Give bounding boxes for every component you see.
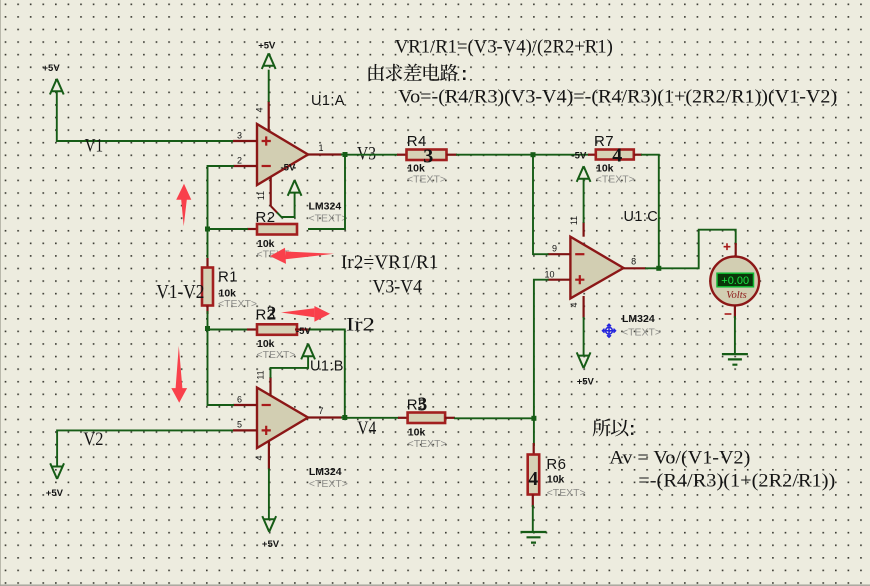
op-amp U1:A pin 11 stub bbox=[270, 177, 272, 206]
svg-text:4: 4 bbox=[254, 455, 264, 460]
power -5V arrow at U1:B pin 11 bbox=[271, 357, 309, 377]
svg-text:+5V: +5V bbox=[46, 488, 64, 499]
Chinese annotation 由求差电路: bbox=[368, 64, 383, 81]
svg-text:R7: R7 bbox=[594, 133, 614, 150]
resistor R1 (vertical) bbox=[207, 229, 209, 262]
wire from U1:A output to V3 node and down to R2 right bbox=[342, 154, 345, 156]
svg-text:U1:C: U1:C bbox=[624, 209, 659, 225]
svg-text:3: 3 bbox=[237, 131, 242, 141]
svg-text:10: 10 bbox=[544, 270, 554, 280]
svg-text:<TEXT>: <TEXT> bbox=[218, 298, 257, 310]
power +5V symbol (V1 source) bbox=[50, 79, 64, 95]
wire R3 right down to V4 node bbox=[309, 330, 345, 418]
svg-text:V1: V1 bbox=[85, 136, 104, 157]
power -5V arrow at U1:A pin 11 bbox=[278, 194, 295, 218]
svg-text:3: 3 bbox=[423, 145, 433, 167]
svg-text:V4: V4 bbox=[357, 418, 376, 439]
svg-text:11: 11 bbox=[256, 370, 266, 379]
red right arrow annotation (pointing from R3) bbox=[314, 306, 330, 322]
svg-text:<TEXT>: <TEXT> bbox=[596, 174, 635, 186]
svg-text:V1-V2: V1-V2 bbox=[156, 282, 204, 303]
svg-text:=-(R4/R3)(1+(2R2/R1)): =-(R4/R3)(1+(2R2/R1)) bbox=[638, 472, 835, 492]
resistor R7 bbox=[588, 154, 596, 156]
wire V3 node to R4 bbox=[345, 154, 397, 156]
svg-text:V2: V2 bbox=[83, 429, 103, 450]
wire from U1:B pin 6 up to R1 bottom node bbox=[208, 329, 234, 406]
svg-text:R1: R1 bbox=[218, 269, 238, 286]
svg-text:4: 4 bbox=[528, 468, 538, 490]
voltmeter display +0.00 Volts bbox=[717, 273, 754, 287]
svg-text:LM324: LM324 bbox=[622, 313, 655, 325]
wire output node to voltmeter bbox=[659, 230, 736, 269]
svg-text:6: 6 bbox=[237, 395, 242, 405]
resistor R2 bbox=[247, 228, 257, 230]
svg-text:V3-V4: V3-V4 bbox=[373, 277, 423, 297]
voltmeter body bbox=[710, 257, 759, 306]
op-amp U1:B pin 4 power stub bbox=[268, 441, 270, 469]
op-amp U1:A pin 4 power stub bbox=[268, 101, 270, 131]
op-amp U1:B pin 11 stub bbox=[269, 377, 271, 396]
wire voltmeter to ground bbox=[734, 317, 736, 354]
red left arrow annotation (pointing at R2 TEXT) bbox=[270, 248, 286, 264]
op-amp U1:A pin 3 stub bbox=[233, 140, 257, 142]
svg-text:R2: R2 bbox=[256, 209, 276, 226]
resistor R5 bbox=[398, 417, 408, 419]
power +5V symbol at U1:A pin 4 bbox=[268, 71, 270, 101]
svg-text:4: 4 bbox=[569, 302, 579, 307]
svg-text:<TEXT>: <TEXT> bbox=[257, 349, 296, 361]
svg-text:U1:A: U1:A bbox=[311, 93, 345, 109]
resistor R3 bbox=[208, 329, 248, 330]
svg-text:4: 4 bbox=[254, 107, 264, 112]
op-amp U1:A body bbox=[257, 124, 308, 185]
op-amp U1:C pin 10 stub bbox=[548, 279, 571, 281]
svg-text:7: 7 bbox=[318, 406, 323, 416]
junction R5-R6 node bbox=[531, 416, 536, 421]
svg-text:+5V: +5V bbox=[262, 539, 280, 550]
svg-text:-5V: -5V bbox=[281, 163, 296, 174]
voltmeter top pin bbox=[735, 243, 737, 257]
svg-text:11: 11 bbox=[569, 216, 579, 225]
svg-text:9: 9 bbox=[552, 244, 557, 254]
svg-text:-5V: -5V bbox=[296, 326, 311, 337]
svg-text:<TEXT>: <TEXT> bbox=[547, 487, 586, 499]
svg-text:Ir2=VR1/R1: Ir2=VR1/R1 bbox=[341, 253, 439, 273]
svg-text:4: 4 bbox=[612, 145, 622, 167]
wire V1 net: +5V arrow down and right to U1:A pin 3 bbox=[57, 92, 233, 141]
wire R6 to ground bbox=[532, 506, 534, 532]
power -5V arrow at U1:C pin 11 bbox=[583, 180, 585, 222]
op-amp U1:B body bbox=[257, 388, 308, 448]
svg-text:LM324: LM324 bbox=[309, 201, 342, 213]
node V3 junction bbox=[343, 152, 348, 157]
output node junction bbox=[656, 266, 661, 271]
svg-text:<TEXT>: <TEXT> bbox=[309, 478, 348, 490]
svg-text:<TEXT>: <TEXT> bbox=[309, 213, 348, 225]
svg-text:U1:B: U1:B bbox=[310, 358, 344, 374]
op-amp U1:A pin 1 output stub bbox=[308, 153, 342, 155]
red up arrow annotation (left of R2) bbox=[176, 184, 191, 227]
svg-text:+0.00: +0.00 bbox=[721, 275, 749, 287]
svg-text:+5V: +5V bbox=[258, 40, 276, 51]
op-amp U1:C pin 4 power stub bbox=[582, 296, 584, 318]
wire R5 to R6 node bbox=[455, 417, 534, 419]
blue origin marker of U1:C bbox=[603, 324, 616, 337]
op-amp U1:C pin 11 power stub bbox=[582, 222, 584, 237]
svg-text:Volts: Volts bbox=[726, 290, 746, 301]
op-amp U1:B pin 7 output stub bbox=[308, 416, 342, 418]
svg-text:R6: R6 bbox=[546, 456, 566, 473]
op-amp U1:B pin 5 stub bbox=[233, 429, 257, 431]
junction R4-R7 node bbox=[531, 152, 536, 157]
node V4 junction bbox=[342, 415, 347, 420]
resistor R6 (vertical) bbox=[533, 418, 535, 445]
junction R1-R3 node bbox=[205, 326, 210, 331]
svg-text:1: 1 bbox=[318, 143, 323, 153]
voltmeter + terminal mark bbox=[724, 243, 731, 250]
svg-text:Ir2: Ir2 bbox=[346, 316, 375, 336]
svg-text:+5V: +5V bbox=[43, 63, 61, 74]
svg-text:10k: 10k bbox=[547, 473, 565, 485]
wire V4 node to R5 bbox=[345, 417, 398, 419]
svg-text:3: 3 bbox=[418, 394, 428, 415]
wire U1:B output to V4 node bbox=[342, 417, 345, 419]
op-amp U1:C pin 9 stub bbox=[548, 253, 571, 255]
Chinese annotation 所以: bbox=[593, 419, 611, 437]
op-amp U1:B pin 6 stub bbox=[233, 404, 257, 406]
svg-text:+5V: +5V bbox=[577, 376, 595, 387]
svg-text:-5V: -5V bbox=[572, 151, 587, 162]
wire U1:C output to node bbox=[646, 267, 659, 269]
svg-text:Vo=-(R4/R3)(V3-V4)=-(R4/R3)(1+: Vo=-(R4/R3)(V3-V4)=-(R4/R3)(1+(2R2/R1))(… bbox=[398, 87, 837, 107]
svg-text:LM324: LM324 bbox=[309, 466, 342, 478]
ground symbol under R6 bbox=[521, 532, 547, 543]
wire from U1:A pin 2 to R2 left node bbox=[208, 166, 234, 229]
op-amp U1:C body bbox=[570, 237, 623, 299]
svg-text:8: 8 bbox=[631, 257, 636, 267]
power +5V symbol (V2 source, arrow down) bbox=[50, 463, 64, 479]
ground symbol under voltmeter bbox=[722, 354, 748, 365]
wire R4 to junction bbox=[457, 154, 533, 156]
junction R2-R1 node bbox=[205, 227, 210, 232]
wire junction to R7 bbox=[533, 154, 588, 156]
svg-text:11: 11 bbox=[256, 191, 266, 200]
op-amp U1:A pin 2 stub bbox=[233, 165, 257, 167]
wire junction down to U1:C pin 9 bbox=[533, 155, 548, 255]
wire U1:C pin 10 down to R5/R6 node bbox=[534, 280, 548, 419]
svg-text:<TEXT>: <TEXT> bbox=[622, 326, 661, 338]
wire V2 net: arrow up then right to U1:B pin 5 bbox=[57, 430, 233, 465]
svg-text:5: 5 bbox=[237, 420, 242, 430]
resistor R4 bbox=[397, 154, 407, 156]
wire R7 right down to U1:C output node bbox=[642, 155, 659, 269]
svg-text:VR1/R1=(V3-V4)/(2R2+R1): VR1/R1=(V3-V4)/(2R2+R1) bbox=[395, 37, 613, 57]
svg-text:2: 2 bbox=[267, 304, 277, 325]
voltmeter - terminal mark bbox=[725, 313, 732, 315]
power +5V symbol at U1:C pin 4 (arrow down) bbox=[583, 318, 585, 355]
power +5V symbol at U1:B pin 4 (arrow down) bbox=[268, 469, 270, 518]
svg-text:10k: 10k bbox=[408, 427, 426, 439]
svg-text:Av = Vo/(V1-V2): Av = Vo/(V1-V2) bbox=[609, 448, 750, 468]
voltmeter bottom pin bbox=[734, 305, 736, 318]
svg-text:<TEXT>: <TEXT> bbox=[407, 174, 446, 186]
svg-text:2: 2 bbox=[237, 156, 242, 166]
red down arrow annotation (left of U1:B) bbox=[171, 346, 187, 403]
svg-text:<TEXT>: <TEXT> bbox=[408, 438, 447, 450]
op-amp U1:C pin 8 output stub bbox=[624, 267, 647, 269]
